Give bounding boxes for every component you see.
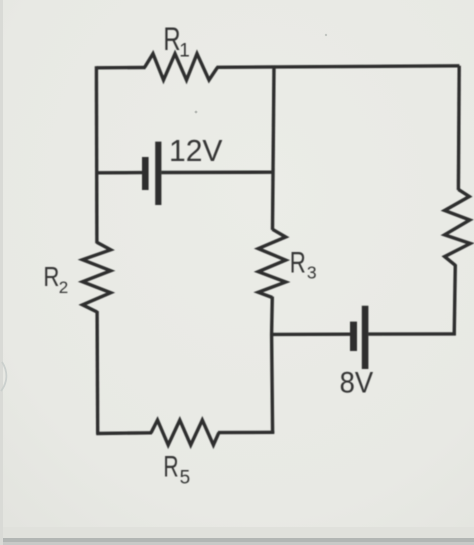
battery V1 12V : long plate — [155, 142, 161, 205]
wire: 12V branch right segment — [161, 170, 272, 174]
svg-text:1: 1 — [179, 40, 190, 61]
resistor R1 — [145, 54, 218, 80]
wire: left vertical upper — [95, 66, 99, 243]
wire: 12V branch left segment — [97, 171, 143, 175]
wire: right vertical lower — [454, 264, 455, 335]
resistor R2 — [83, 242, 111, 312]
wire: middle vertical upper — [273, 66, 275, 230]
battery V2 8V : long plate — [362, 306, 369, 369]
resistor R4 — [445, 189, 471, 265]
resistor R3 — [258, 229, 285, 297]
wire: bottom horizontal left segment — [96, 431, 152, 435]
svg-text:2: 2 — [59, 278, 68, 297]
svg-text:3: 3 — [307, 263, 317, 283]
svg-text:8V: 8V — [340, 367, 374, 400]
wire: top horizontal left segment — [96, 66, 145, 70]
label 8V — [340, 367, 374, 400]
wire: 8V branch left segment — [272, 333, 351, 337]
svg-text:R: R — [290, 246, 306, 279]
svg-text:R: R — [163, 451, 178, 484]
label R3 — [290, 246, 317, 282]
wire: left vertical lower — [95, 311, 99, 434]
wire: bottom horizontal right segment — [218, 431, 274, 435]
wire: 8V branch right segment — [368, 332, 456, 336]
resistor R5 — [151, 420, 219, 445]
battery V2 8V : short plate — [350, 322, 357, 351]
svg-text:12V: 12V — [169, 133, 223, 168]
wire: top horizontal right segment — [217, 66, 460, 68]
wire: middle vertical lower — [272, 297, 273, 434]
wire: right vertical upper — [457, 66, 461, 190]
svg-text:R: R — [43, 261, 59, 292]
label R5 — [163, 451, 190, 489]
battery V1 12V : short plate — [142, 157, 149, 190]
label R2 — [43, 261, 68, 297]
label 12V — [169, 133, 223, 168]
label R1 — [163, 21, 189, 61]
svg-text:5: 5 — [180, 467, 191, 488]
svg-text:R: R — [163, 21, 180, 57]
